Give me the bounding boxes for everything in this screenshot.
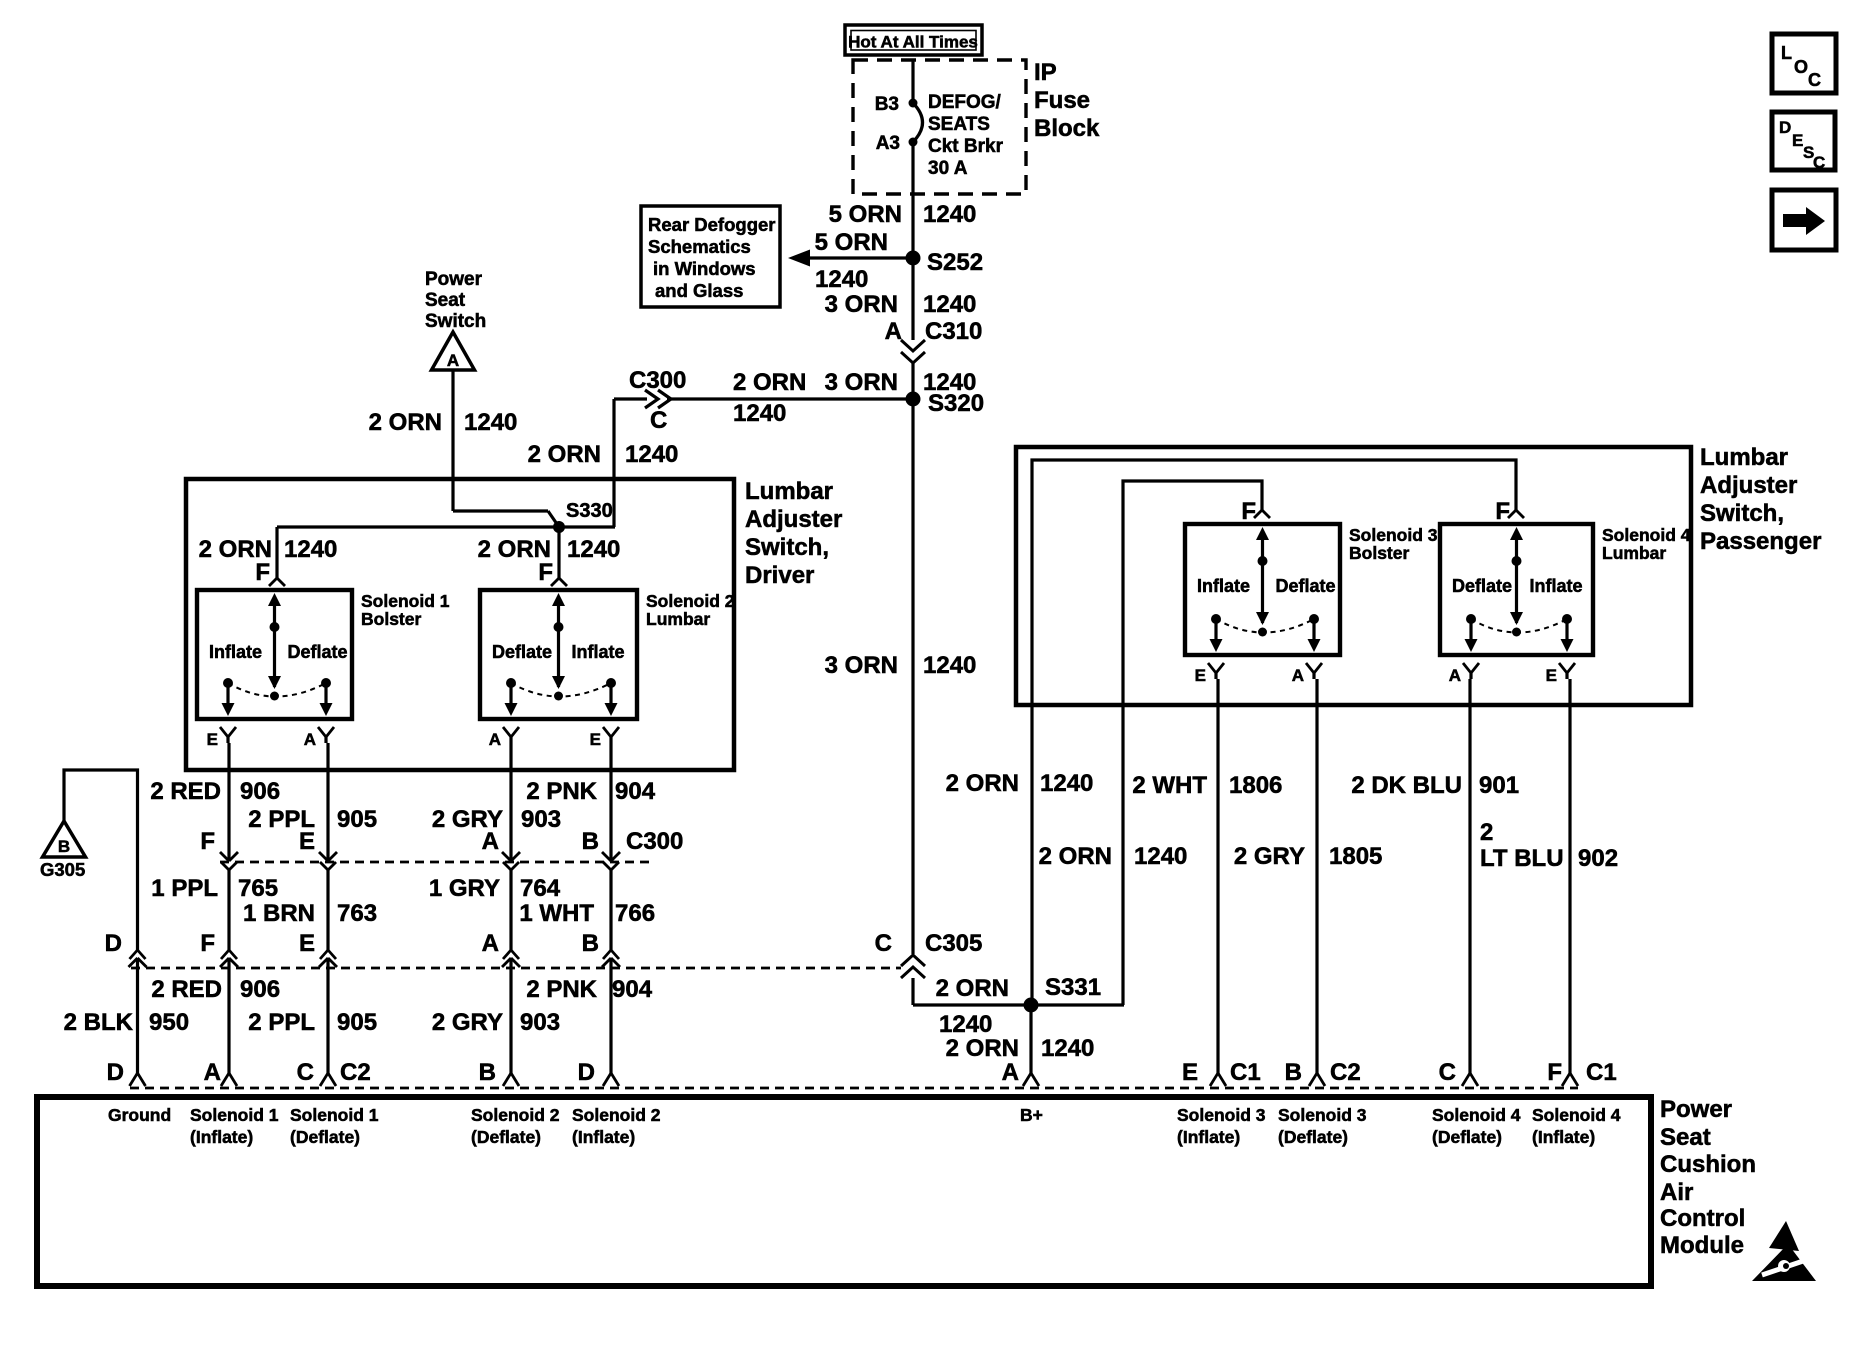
svg-text:F: F xyxy=(1495,498,1510,525)
svg-text:Lumbar: Lumbar xyxy=(745,478,833,505)
svg-text:2 ORN: 2 ORN xyxy=(369,409,442,436)
svg-text:E: E xyxy=(207,730,218,749)
svg-text:E: E xyxy=(1182,1059,1198,1086)
svg-text:Switch,: Switch, xyxy=(745,534,829,561)
svg-text:G305: G305 xyxy=(40,859,85,880)
svg-text:A: A xyxy=(447,351,459,370)
svg-text:Solenoid 4: Solenoid 4 xyxy=(1602,525,1691,545)
svg-text:F: F xyxy=(1547,1059,1562,1086)
svg-text:3 ORN: 3 ORN xyxy=(825,652,898,679)
svg-text:Solenoid 2: Solenoid 2 xyxy=(572,1105,661,1125)
svg-text:1240: 1240 xyxy=(625,441,678,468)
svg-text:2: 2 xyxy=(1480,819,1493,846)
svg-text:C1: C1 xyxy=(1586,1059,1617,1086)
svg-text:Block: Block xyxy=(1034,115,1100,142)
svg-text:Bolster: Bolster xyxy=(361,609,421,629)
svg-text:Solenoid 1: Solenoid 1 xyxy=(361,591,450,611)
svg-text:A: A xyxy=(204,1059,221,1086)
svg-text:C300: C300 xyxy=(626,828,683,855)
svg-text:1240: 1240 xyxy=(923,652,976,679)
svg-text:D: D xyxy=(107,1059,124,1086)
svg-text:SEATS: SEATS xyxy=(928,114,990,135)
svg-text:Seat: Seat xyxy=(1660,1124,1711,1151)
svg-text:Solenoid 2: Solenoid 2 xyxy=(646,591,735,611)
svg-text:2 RED: 2 RED xyxy=(151,976,222,1003)
svg-text:Ckt Brkr: Ckt Brkr xyxy=(928,136,1004,157)
svg-text:Power: Power xyxy=(1660,1096,1732,1123)
svg-text:F: F xyxy=(200,930,215,957)
svg-text:Adjuster: Adjuster xyxy=(1700,472,1797,499)
svg-text:C: C xyxy=(1439,1059,1456,1086)
svg-text:2 PNK: 2 PNK xyxy=(526,778,597,805)
svg-text:A: A xyxy=(304,730,316,749)
svg-text:B+: B+ xyxy=(1020,1105,1043,1125)
svg-text:Solenoid 3: Solenoid 3 xyxy=(1177,1105,1266,1125)
svg-text:Lumbar: Lumbar xyxy=(1602,543,1666,563)
svg-text:3 ORN: 3 ORN xyxy=(825,369,898,396)
svg-text:1240: 1240 xyxy=(923,201,976,228)
svg-text:Bolster: Bolster xyxy=(1349,543,1409,563)
svg-text:Inflate: Inflate xyxy=(209,642,262,662)
svg-text:DEFOG/: DEFOG/ xyxy=(928,92,1002,113)
svg-text:906: 906 xyxy=(240,976,280,1003)
svg-text:Inflate: Inflate xyxy=(1530,576,1583,596)
svg-text:Deflate: Deflate xyxy=(288,642,348,662)
svg-text:Solenoid 2: Solenoid 2 xyxy=(471,1105,560,1125)
svg-text:Switch: Switch xyxy=(425,311,486,332)
svg-text:D: D xyxy=(105,930,122,957)
svg-text:1240: 1240 xyxy=(923,291,976,318)
svg-text:2 PNK: 2 PNK xyxy=(526,976,597,1003)
svg-text:Deflate: Deflate xyxy=(1276,576,1336,596)
svg-text:2 BLK: 2 BLK xyxy=(64,1009,134,1036)
svg-text:1805: 1805 xyxy=(1329,843,1382,870)
svg-text:Solenoid 3: Solenoid 3 xyxy=(1349,525,1438,545)
svg-text:1240: 1240 xyxy=(1041,1035,1094,1062)
svg-text:C2: C2 xyxy=(340,1059,371,1086)
svg-text:D: D xyxy=(578,1059,595,1086)
svg-text:2 GRY: 2 GRY xyxy=(432,1009,503,1036)
svg-text:2 ORN: 2 ORN xyxy=(936,975,1009,1002)
svg-text:C300: C300 xyxy=(629,367,686,394)
svg-text:Control: Control xyxy=(1660,1205,1745,1232)
svg-text:A: A xyxy=(885,318,902,345)
svg-text:904: 904 xyxy=(612,976,653,1003)
svg-text:F: F xyxy=(255,559,270,586)
svg-text:(Deflate): (Deflate) xyxy=(290,1127,360,1147)
svg-text:C: C xyxy=(650,407,667,434)
svg-text:A: A xyxy=(482,930,499,957)
svg-text:(Inflate): (Inflate) xyxy=(1177,1127,1240,1147)
svg-text:E: E xyxy=(1195,666,1206,685)
svg-text:Solenoid 1: Solenoid 1 xyxy=(190,1105,279,1125)
svg-text:1240: 1240 xyxy=(1040,770,1093,797)
svg-text:E: E xyxy=(1546,666,1557,685)
svg-text:E: E xyxy=(299,930,315,957)
svg-text:LT BLU: LT BLU xyxy=(1480,845,1564,872)
svg-text:2 RED: 2 RED xyxy=(150,778,221,805)
svg-text:763: 763 xyxy=(337,900,377,927)
svg-text:1240: 1240 xyxy=(815,266,868,293)
svg-text:2 ORN: 2 ORN xyxy=(1039,843,1112,870)
svg-text:B3: B3 xyxy=(875,94,899,115)
svg-text:C: C xyxy=(297,1059,314,1086)
svg-text:Deflate: Deflate xyxy=(492,642,552,662)
svg-text:Inflate: Inflate xyxy=(572,642,625,662)
svg-text:A: A xyxy=(1002,1059,1019,1086)
svg-text:30 A: 30 A xyxy=(928,158,968,179)
svg-text:F: F xyxy=(1241,498,1256,525)
svg-text:5 ORN: 5 ORN xyxy=(829,201,902,228)
svg-text:(Deflate): (Deflate) xyxy=(471,1127,541,1147)
svg-text:B: B xyxy=(479,1059,496,1086)
svg-text:C: C xyxy=(1813,153,1825,172)
svg-text:B: B xyxy=(1285,1059,1302,1086)
svg-text:1 WHT: 1 WHT xyxy=(519,900,594,927)
svg-text:1 GRY: 1 GRY xyxy=(429,875,500,902)
svg-text:2 ORN: 2 ORN xyxy=(733,369,806,396)
svg-text:5 ORN: 5 ORN xyxy=(815,229,888,256)
svg-text:Schematics: Schematics xyxy=(648,236,751,257)
svg-text:A: A xyxy=(1449,666,1461,685)
svg-text:(Inflate): (Inflate) xyxy=(190,1127,253,1147)
svg-text:A: A xyxy=(1292,666,1304,685)
svg-text:(Inflate): (Inflate) xyxy=(572,1127,635,1147)
svg-text:903: 903 xyxy=(521,806,561,833)
svg-text:Solenoid 3: Solenoid 3 xyxy=(1278,1105,1367,1125)
svg-text:2 GRY: 2 GRY xyxy=(1234,843,1305,870)
svg-text:C: C xyxy=(875,930,892,957)
svg-text:A: A xyxy=(482,828,499,855)
svg-text:B: B xyxy=(58,837,70,856)
svg-text:C1: C1 xyxy=(1230,1059,1261,1086)
svg-text:903: 903 xyxy=(520,1009,560,1036)
svg-text:B: B xyxy=(582,930,599,957)
svg-text:Solenoid 4: Solenoid 4 xyxy=(1532,1105,1621,1125)
svg-text:905: 905 xyxy=(337,806,377,833)
svg-text:904: 904 xyxy=(615,778,656,805)
svg-text:Ground: Ground xyxy=(108,1105,171,1125)
svg-text:and Glass: and Glass xyxy=(655,280,743,301)
svg-text:C305: C305 xyxy=(925,930,982,957)
svg-text:Power: Power xyxy=(425,269,483,290)
svg-text:Air: Air xyxy=(1660,1179,1693,1206)
svg-text:950: 950 xyxy=(149,1009,189,1036)
svg-text:A3: A3 xyxy=(876,133,900,154)
svg-text:2 ORN: 2 ORN xyxy=(528,441,601,468)
svg-text:Solenoid 4: Solenoid 4 xyxy=(1432,1105,1521,1125)
svg-text:S320: S320 xyxy=(928,390,984,417)
svg-text:1240: 1240 xyxy=(1134,843,1187,870)
svg-text:Passenger: Passenger xyxy=(1700,528,1821,555)
svg-text:Lumbar: Lumbar xyxy=(1700,444,1788,471)
svg-text:O: O xyxy=(1794,57,1808,77)
svg-text:Cushion: Cushion xyxy=(1660,1151,1756,1178)
svg-text:764: 764 xyxy=(520,875,561,902)
svg-text:Seat: Seat xyxy=(425,290,466,311)
svg-text:C: C xyxy=(1808,70,1821,90)
svg-text:E: E xyxy=(590,730,601,749)
svg-text:S252: S252 xyxy=(927,249,983,276)
svg-text:Fuse: Fuse xyxy=(1034,87,1090,114)
svg-text:2 ORN: 2 ORN xyxy=(946,770,1019,797)
svg-text:Hot At All Times: Hot At All Times xyxy=(848,33,978,52)
svg-text:765: 765 xyxy=(238,875,278,902)
svg-text:S331: S331 xyxy=(1045,974,1101,1001)
svg-text:D: D xyxy=(1779,118,1791,137)
svg-text:1240: 1240 xyxy=(567,536,620,563)
svg-text:3 ORN: 3 ORN xyxy=(825,291,898,318)
svg-text:Rear Defogger: Rear Defogger xyxy=(648,214,775,235)
svg-text:(Inflate): (Inflate) xyxy=(1532,1127,1595,1147)
svg-text:Deflate: Deflate xyxy=(1452,576,1512,596)
svg-text:905: 905 xyxy=(337,1009,377,1036)
svg-text:2 PPL: 2 PPL xyxy=(248,1009,315,1036)
svg-text:Adjuster: Adjuster xyxy=(745,506,842,533)
svg-text:1 BRN: 1 BRN xyxy=(243,900,315,927)
svg-text:Lumbar: Lumbar xyxy=(646,609,710,629)
svg-text:1806: 1806 xyxy=(1229,772,1282,799)
svg-text:IP: IP xyxy=(1034,59,1057,86)
svg-text:C2: C2 xyxy=(1330,1059,1361,1086)
svg-text:(Deflate): (Deflate) xyxy=(1278,1127,1348,1147)
svg-text:E: E xyxy=(1792,131,1803,150)
svg-text:2 DK BLU: 2 DK BLU xyxy=(1351,772,1462,799)
svg-text:1240: 1240 xyxy=(464,409,517,436)
svg-text:F: F xyxy=(200,828,215,855)
svg-text:1240: 1240 xyxy=(733,400,786,427)
svg-text:C310: C310 xyxy=(925,318,982,345)
svg-text:Inflate: Inflate xyxy=(1197,576,1250,596)
svg-text:1 PPL: 1 PPL xyxy=(151,875,218,902)
svg-text:902: 902 xyxy=(1578,845,1618,872)
svg-text:901: 901 xyxy=(1479,772,1519,799)
svg-text:2 WHT: 2 WHT xyxy=(1132,772,1207,799)
svg-text:2 ORN: 2 ORN xyxy=(946,1035,1019,1062)
svg-text:Switch,: Switch, xyxy=(1700,500,1784,527)
svg-text:906: 906 xyxy=(240,778,280,805)
svg-text:Driver: Driver xyxy=(745,562,814,589)
svg-text:in Windows: in Windows xyxy=(653,258,756,279)
svg-text:(Deflate): (Deflate) xyxy=(1432,1127,1502,1147)
svg-text:S330: S330 xyxy=(566,500,613,522)
svg-text:F: F xyxy=(538,559,553,586)
svg-text:A: A xyxy=(489,730,501,749)
svg-text:Solenoid 1: Solenoid 1 xyxy=(290,1105,379,1125)
svg-text:1240: 1240 xyxy=(939,1011,992,1038)
svg-text:Module: Module xyxy=(1660,1232,1744,1259)
svg-text:E: E xyxy=(299,828,315,855)
svg-text:L: L xyxy=(1781,43,1792,63)
svg-text:766: 766 xyxy=(615,900,655,927)
svg-text:B: B xyxy=(582,828,599,855)
svg-text:1240: 1240 xyxy=(284,536,337,563)
